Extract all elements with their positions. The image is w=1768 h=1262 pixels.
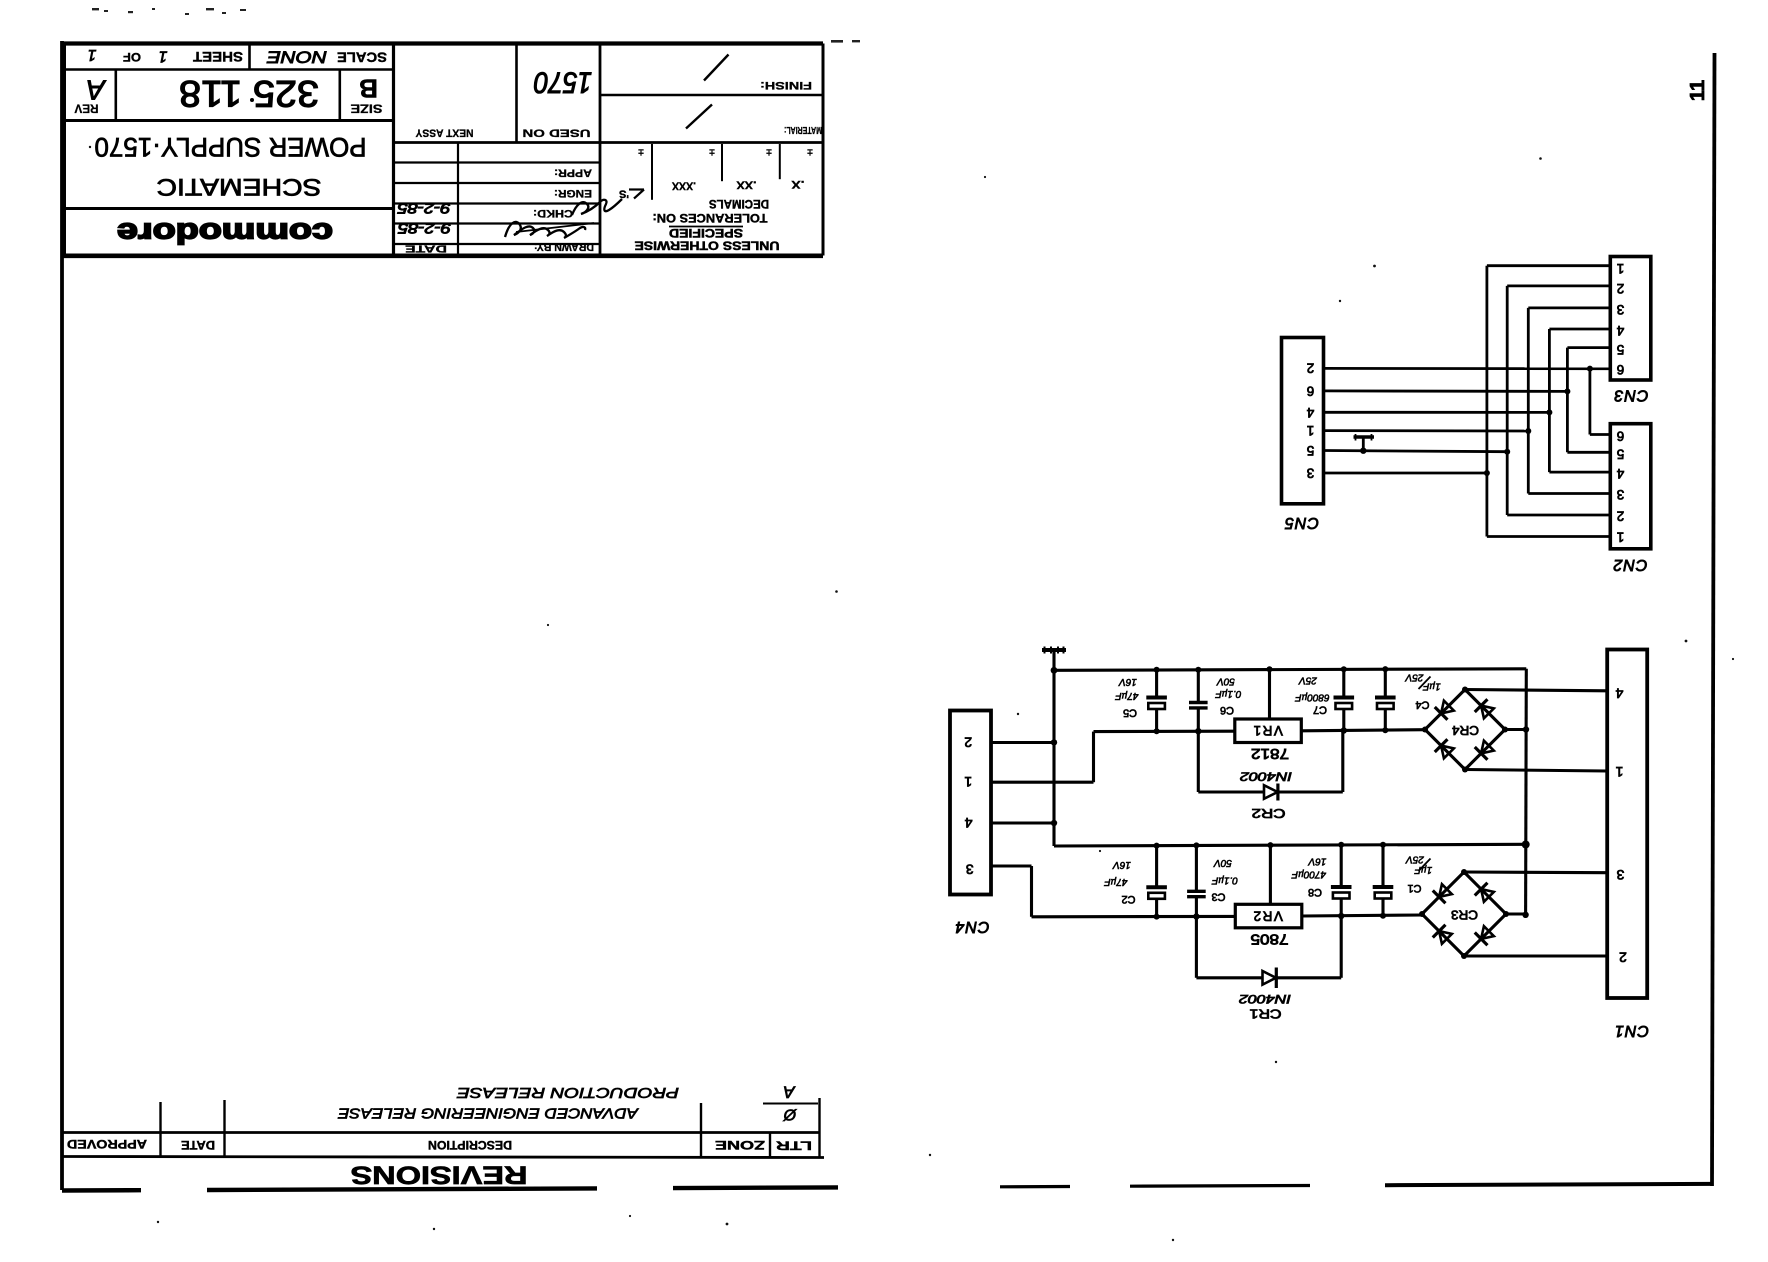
title block frame xyxy=(63,44,823,256)
svg-text:1: 1 xyxy=(1307,423,1315,438)
revision entry 0 advanced engineering release xyxy=(338,1105,798,1123)
svg-text:.XX: .XX xyxy=(736,179,757,191)
regulator VR1 ground lead xyxy=(1267,666,1273,719)
svg-text:1: 1 xyxy=(1617,529,1625,544)
diode CR2 xyxy=(1264,784,1278,801)
CN2 pin 3 xyxy=(1617,487,1625,502)
svg-text:ENGR:: ENGR: xyxy=(554,187,592,199)
wire ground rail lower xyxy=(1054,844,1526,846)
svg-text:CN3: CN3 xyxy=(1613,387,1648,404)
svg-text:VR2: VR2 xyxy=(1252,909,1283,924)
title block sheet/scale row xyxy=(88,46,387,67)
C8 label xyxy=(1308,886,1322,898)
regulator VR2 ground lead xyxy=(1267,842,1273,904)
CN4 pin 3 xyxy=(966,862,974,878)
svg-text:25V: 25V xyxy=(1404,672,1424,683)
svg-text:3: 3 xyxy=(966,862,974,878)
svg-text:NEXT ASSY: NEXT ASSY xyxy=(415,127,474,139)
svg-text:0.1µF: 0.1µF xyxy=(1215,688,1242,699)
CR1 value IN4002 xyxy=(1239,992,1291,1006)
CN4 pin 1 xyxy=(964,774,972,790)
wire ground rail upper xyxy=(1054,669,1526,671)
svg-text:3: 3 xyxy=(1617,487,1625,502)
signature squiggles xyxy=(505,199,622,238)
junction ground rails right xyxy=(1522,841,1530,849)
svg-text:11: 11 xyxy=(1687,80,1709,101)
CN5 pin 3 xyxy=(1307,466,1315,481)
svg-text:REV: REV xyxy=(75,102,99,116)
wire net5 CN5.6-CN3.5-CN2.5 xyxy=(1324,348,1611,453)
svg-text:3: 3 xyxy=(1617,302,1625,317)
svg-text:6: 6 xyxy=(1617,362,1625,377)
svg-text:NONE: NONE xyxy=(266,48,327,67)
C3 label xyxy=(1211,890,1225,902)
svg-text:50V: 50V xyxy=(1213,857,1232,868)
wire CR3 positive vertex xyxy=(1506,912,1529,918)
svg-text:0.1µF: 0.1µF xyxy=(1211,874,1238,885)
C8 value 4700uF 16V xyxy=(1291,856,1326,880)
svg-text:DRAWN BY:: DRAWN BY: xyxy=(534,241,594,253)
CN5 pin 1 xyxy=(1307,423,1315,438)
svg-text:CR1: CR1 xyxy=(1250,1006,1282,1021)
svg-text:25V: 25V xyxy=(1405,853,1425,864)
svg-text:SHEET: SHEET xyxy=(193,49,243,65)
svg-text:5: 5 xyxy=(1617,342,1625,357)
CN4 pin 4 xyxy=(964,815,972,831)
svg-text:IN4002: IN4002 xyxy=(1239,992,1291,1006)
svg-text:SPECIFIED: SPECIFIED xyxy=(669,226,743,240)
svg-text:C1: C1 xyxy=(1407,882,1421,894)
svg-text:C3: C3 xyxy=(1211,890,1225,902)
svg-text:2: 2 xyxy=(1617,281,1625,296)
svg-text:IN4002: IN4002 xyxy=(1240,769,1292,783)
signature rows xyxy=(397,167,594,255)
CN5 pin 6 xyxy=(1307,383,1315,398)
wire CR3 AC top to CN1 pin 3 xyxy=(1464,870,1607,874)
wire CN4 pin 2 to ground xyxy=(991,739,1057,745)
page number 11 xyxy=(1687,80,1709,101)
svg-text:ADVANCED ENGINEERING RELEASE: ADVANCED ENGINEERING RELEASE xyxy=(338,1105,640,1121)
C6 value 0.1uF 50V xyxy=(1215,675,1242,699)
C7 label xyxy=(1313,704,1327,716)
wire net2 CN5.5-CN3.2-CN2.2 xyxy=(1324,286,1611,515)
C4 value 1uF 25V xyxy=(1404,672,1440,692)
CN2 pin 5 xyxy=(1617,447,1625,462)
CN1 pin 1 xyxy=(1615,764,1623,780)
svg-text:MATERIAL:: MATERIAL: xyxy=(784,124,822,135)
svg-text:APPROVED: APPROVED xyxy=(67,1137,147,1149)
svg-text:CHKD:: CHKD: xyxy=(533,207,573,219)
revisions title xyxy=(351,1161,528,1189)
title block rev A xyxy=(75,75,107,116)
CN3 label xyxy=(1613,387,1648,404)
tolerance block xyxy=(619,144,813,253)
svg-text:.X: .X xyxy=(791,178,805,190)
wire ground column right xyxy=(1524,669,1528,916)
svg-text:2: 2 xyxy=(1617,508,1625,523)
svg-text:6: 6 xyxy=(1307,383,1315,398)
wire net4 CN5.4-CN3.4-CN2.4 xyxy=(1324,329,1611,472)
svg-text:TOLERANCES ON:: TOLERANCES ON: xyxy=(653,211,768,223)
connector CN3 xyxy=(1610,257,1651,381)
capacitor C8 xyxy=(1331,842,1352,919)
wire CR4 AC bottom to CN1 pin 1 xyxy=(1465,770,1607,772)
connector CN2 xyxy=(1610,424,1651,549)
svg-text:47µF: 47µF xyxy=(1104,876,1128,887)
svg-text:DATE: DATE xyxy=(181,1138,215,1150)
CN1 label xyxy=(1614,1022,1649,1039)
wire ground column CN4 side xyxy=(1052,670,1055,846)
svg-text:16V: 16V xyxy=(1307,856,1326,867)
capacitor C2 xyxy=(1146,843,1167,920)
revision entry A production release xyxy=(457,1083,796,1102)
svg-text:5: 5 xyxy=(1617,447,1625,462)
svg-text:50V: 50V xyxy=(1216,675,1235,686)
wire CR3 AC bottom to CN1 pin 2 xyxy=(1464,954,1607,957)
C1 value 1uF 25V xyxy=(1405,853,1432,875)
capacitor C5 xyxy=(1146,667,1167,735)
CN3 pin 5 xyxy=(1617,342,1625,357)
svg-text:CR4: CR4 xyxy=(1452,723,1479,737)
sheet border left xyxy=(60,41,64,1190)
title block part number 325 118 xyxy=(179,73,319,114)
CN3 pin 4 xyxy=(1616,323,1624,338)
svg-text:FINISH:: FINISH: xyxy=(760,79,812,91)
wire CN4 pin 1 to +12V rail xyxy=(991,731,1235,782)
connector CN5 xyxy=(1282,338,1324,504)
svg-text:C5: C5 xyxy=(1123,707,1137,719)
capacitor C4 xyxy=(1375,666,1396,733)
svg-text:1µF: 1µF xyxy=(1422,680,1440,691)
CR2 value IN4002 xyxy=(1240,769,1292,783)
svg-text:CN2: CN2 xyxy=(1612,556,1647,573)
svg-text:1: 1 xyxy=(88,46,97,63)
svg-text:9-2-85: 9-2-85 xyxy=(397,200,451,217)
svg-text:16V: 16V xyxy=(1118,676,1137,687)
ground symbol upper xyxy=(1042,647,1066,671)
svg-text:2: 2 xyxy=(1619,950,1627,966)
svg-text:B: B xyxy=(359,74,378,104)
VR2 value 7805 xyxy=(1251,930,1289,946)
svg-text:APPR:: APPR: xyxy=(554,167,592,179)
svg-text:CR3: CR3 xyxy=(1451,908,1478,922)
svg-text:CN5: CN5 xyxy=(1284,514,1319,531)
wire CR4 AC top to CN1 pin 4 xyxy=(1465,690,1607,691)
svg-text:SCALE: SCALE xyxy=(337,50,387,66)
wire CR4 positive vertex xyxy=(1505,726,1529,732)
svg-text:PRODUCTION RELEASE: PRODUCTION RELEASE xyxy=(457,1084,679,1100)
svg-text:UNLESS OTHERWISE: UNLESS OTHERWISE xyxy=(635,239,780,253)
svg-text:.XXX: .XXX xyxy=(671,180,696,192)
svg-text:3: 3 xyxy=(1616,867,1624,883)
C2 value 47uF 16V xyxy=(1104,859,1131,887)
CN2 pin 2 xyxy=(1617,508,1625,523)
svg-text:4700µF: 4700µF xyxy=(1291,868,1326,879)
CN3 pin 1 xyxy=(1617,261,1625,276)
wire +5V rail VR2 to bridge CR3 xyxy=(1302,915,1423,916)
wire CN4 pin 4 to ground xyxy=(991,820,1057,826)
svg-text:325 118: 325 118 xyxy=(179,73,319,114)
svg-text:5: 5 xyxy=(1307,443,1315,458)
sheet border bottom xyxy=(62,1184,1712,1191)
svg-text:CN1: CN1 xyxy=(1614,1022,1649,1039)
diode CR2 loop wire xyxy=(1198,731,1343,793)
revisions header text xyxy=(67,1137,812,1151)
svg-text:C8: C8 xyxy=(1308,886,1322,898)
CN2 pin 4 xyxy=(1616,466,1624,481)
CN2 label xyxy=(1612,556,1647,573)
bridge rectifier CR3 xyxy=(1419,869,1509,959)
capacitor C3 xyxy=(1187,842,1206,919)
svg-text:±: ± xyxy=(807,147,813,158)
svg-text:7805: 7805 xyxy=(1251,930,1289,946)
connector CN4 xyxy=(950,711,991,895)
svg-text:4: 4 xyxy=(1306,405,1314,420)
svg-text:DECIMALS: DECIMALS xyxy=(709,197,769,209)
C3 value 0.1uF 50V xyxy=(1211,857,1238,885)
CR1 label xyxy=(1250,1006,1282,1021)
capacitor C1 xyxy=(1373,842,1394,919)
svg-text:SIZE: SIZE xyxy=(351,102,383,116)
svg-text:2: 2 xyxy=(964,734,972,750)
C1 label xyxy=(1407,882,1421,894)
svg-text:ZONE: ZONE xyxy=(714,1138,765,1150)
C4 label xyxy=(1415,699,1429,711)
svg-text:16V: 16V xyxy=(1112,859,1131,870)
svg-text:SCHEMATIC: SCHEMATIC xyxy=(157,173,322,200)
CN1 pin 4 xyxy=(1615,685,1623,701)
svg-text:3: 3 xyxy=(1307,466,1315,481)
CN1 pin 3 xyxy=(1616,867,1624,883)
CN3 pin 6 xyxy=(1617,362,1625,377)
diode CR1 xyxy=(1263,968,1277,989)
CN3 pin 3 xyxy=(1617,302,1625,317)
CR2 label xyxy=(1252,806,1286,821)
svg-text:4: 4 xyxy=(964,815,972,831)
bridge rectifier CR4 xyxy=(1422,687,1508,773)
svg-text:1: 1 xyxy=(964,774,972,790)
svg-text:Ø: Ø xyxy=(782,1106,797,1123)
svg-text:7812: 7812 xyxy=(1251,745,1289,761)
regulator VR1 xyxy=(1235,719,1302,743)
material finish xyxy=(686,55,822,136)
title POWER SUPPLY 1570 xyxy=(95,132,367,162)
C6 label xyxy=(1220,704,1234,716)
title block size B xyxy=(351,74,383,116)
svg-text:C4: C4 xyxy=(1415,699,1429,711)
svg-text:6800µF: 6800µF xyxy=(1295,692,1330,703)
svg-text:OF: OF xyxy=(123,50,141,64)
capacitor C6 xyxy=(1189,667,1208,735)
svg-text:4: 4 xyxy=(1616,466,1624,481)
CN5 pin 2 xyxy=(1307,361,1315,376)
svg-text:9-2-85: 9-2-85 xyxy=(397,220,451,237)
wire +12V rail VR1 to bridge CR4 xyxy=(1301,730,1425,731)
svg-text:REVISIONS: REVISIONS xyxy=(351,1161,528,1189)
svg-text:25V: 25V xyxy=(1298,675,1318,686)
capacitor C7 xyxy=(1334,666,1355,734)
title SCHEMATIC xyxy=(157,173,322,200)
CN2 pin 1 xyxy=(1617,529,1625,544)
svg-text:±: ± xyxy=(766,147,772,158)
svg-text:±: ± xyxy=(638,147,644,158)
svg-text:'S: 'S xyxy=(619,188,629,200)
svg-text:POWER SUPPLY·1570: POWER SUPPLY·1570 xyxy=(95,132,367,162)
svg-text:1: 1 xyxy=(159,48,168,65)
wire net1 CN5.3-CN3.1-CN2.1 xyxy=(1324,266,1611,537)
svg-text:CR2: CR2 xyxy=(1252,806,1286,821)
wire net3 CN5.1-CN3.3-CN2.3 xyxy=(1324,308,1611,494)
diode CR1 loop wire xyxy=(1196,916,1341,978)
regulator VR2 xyxy=(1235,904,1302,928)
svg-text:2: 2 xyxy=(1307,361,1315,376)
svg-text:LTR: LTR xyxy=(775,1139,812,1151)
svg-text:commodore: commodore xyxy=(117,217,333,249)
svg-text:C7: C7 xyxy=(1313,704,1327,716)
svg-text:4: 4 xyxy=(1616,323,1624,338)
svg-text:1: 1 xyxy=(1617,261,1625,276)
svg-text:C2: C2 xyxy=(1121,893,1135,905)
svg-text:1µF: 1µF xyxy=(1414,864,1432,875)
wire CN4 pin 3 to +5V rail xyxy=(991,866,1235,917)
C2 label xyxy=(1121,893,1135,905)
wire net6 CN5.2-CN3.6-CN2.6 xyxy=(1324,366,1611,435)
svg-text:1: 1 xyxy=(1615,764,1623,780)
svg-text:USED ON: USED ON xyxy=(522,127,590,139)
CN2 pin 6 xyxy=(1617,429,1625,444)
svg-text:C6: C6 xyxy=(1220,704,1234,716)
CN5 pin 5 xyxy=(1307,443,1315,458)
svg-text:VR1: VR1 xyxy=(1252,723,1283,738)
svg-text:4: 4 xyxy=(1615,685,1623,701)
svg-text:A: A xyxy=(783,1083,795,1102)
VR1 value 7812 xyxy=(1251,745,1289,761)
revisions table frame xyxy=(62,1098,824,1158)
C7 value 6800uF 25V xyxy=(1295,675,1330,703)
svg-text:CN4: CN4 xyxy=(954,918,989,935)
CN1 pin 2 xyxy=(1619,950,1627,966)
svg-text:A: A xyxy=(86,75,107,106)
CN5 pin 4 xyxy=(1306,405,1314,420)
svg-text:1570: 1570 xyxy=(534,66,592,99)
svg-text:DATE: DATE xyxy=(405,243,447,255)
ground symbol on CN5 pin 5 wire xyxy=(1354,434,1375,454)
junction ground stem to rail xyxy=(1051,667,1058,674)
CN5 label xyxy=(1284,514,1319,531)
svg-text:DESCRIPTION: DESCRIPTION xyxy=(428,1138,512,1150)
svg-text:47µF: 47µF xyxy=(1115,690,1139,701)
sheet border right xyxy=(1712,53,1715,1186)
C5 value 47uF 16V xyxy=(1115,676,1139,701)
scan speckles top edge xyxy=(92,8,860,43)
svg-text:±: ± xyxy=(709,147,715,158)
commodore logo xyxy=(117,217,333,249)
connector CN1 xyxy=(1607,650,1647,999)
svg-text:6: 6 xyxy=(1617,429,1625,444)
next assy / used on xyxy=(415,66,592,139)
C5 label xyxy=(1123,707,1137,719)
CN4 pin 2 xyxy=(964,734,972,750)
CN3 pin 2 xyxy=(1617,281,1625,296)
CN4 label xyxy=(954,918,989,935)
